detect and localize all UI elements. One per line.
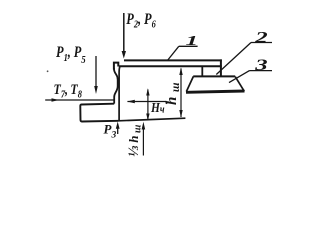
part 3 insert: left slant <box>186 76 193 91</box>
svg-text:Hч: Hч <box>150 100 165 115</box>
callout 1 (label, underline, leader to bar) <box>167 34 198 61</box>
strap right edge (down to plate bottom) <box>118 67 121 121</box>
dimension 1/3 h_sh (vertical arrow up to datum) <box>142 122 146 156</box>
part 3 insert: bottom edge <box>186 91 245 92</box>
part 3 insert: top edge <box>193 75 235 77</box>
speck (print artifact) <box>47 70 49 72</box>
svg-text:T7,T8: T7,T8 <box>54 81 83 101</box>
strap left edge (S-curve down to plate top) <box>114 68 118 104</box>
part 1 bar: right end cap / part 2 right edge <box>220 59 222 76</box>
force arrow P3 (vertical, pointing up at plate bottom) <box>116 122 120 134</box>
callout 3 (label, underline, leader to insert) <box>229 56 272 83</box>
datum reference line (plate bottom extended right) <box>119 118 186 121</box>
part 1 bar: bottom line <box>119 65 222 67</box>
part 3 insert: right slant <box>235 77 244 92</box>
svg-text:P1,P5: P1,P5 <box>56 44 86 67</box>
dimension h_sh (vertical line at x=181 with outward arrowheads) <box>179 67 182 117</box>
part 1 bar: top line <box>124 59 222 61</box>
dimension H_ch (vertical line at x=148) <box>146 88 149 120</box>
leader line for H_ch label (left-pointing arrow) <box>127 100 167 104</box>
svg-text:2: 2 <box>254 28 268 46</box>
hook lip (clamp over bar left end) <box>114 63 118 70</box>
svg-text:P2,P6: P2,P6 <box>126 11 156 31</box>
force line T7,T8 (horizontal with right arrowhead near left end) <box>45 98 114 102</box>
svg-text:⅓hш: ⅓hш <box>126 122 144 157</box>
part 2 block left edge <box>201 67 203 76</box>
force arrow P2,P6 (vertical, pointing down onto bar left end) <box>122 13 126 59</box>
force arrow P1,P5 (vertical, pointing down onto T line) <box>94 56 98 94</box>
svg-text:P3: P3 <box>104 122 117 141</box>
base plate outline <box>80 104 118 122</box>
svg-text:hш: hш <box>164 78 182 105</box>
callout 2 (label, underline, leader into part 2) <box>216 28 272 75</box>
